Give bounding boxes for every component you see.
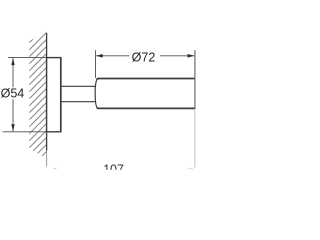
svg-text:Ø54: Ø54 [1,87,25,101]
svg-text:Ø72: Ø72 [132,51,156,65]
